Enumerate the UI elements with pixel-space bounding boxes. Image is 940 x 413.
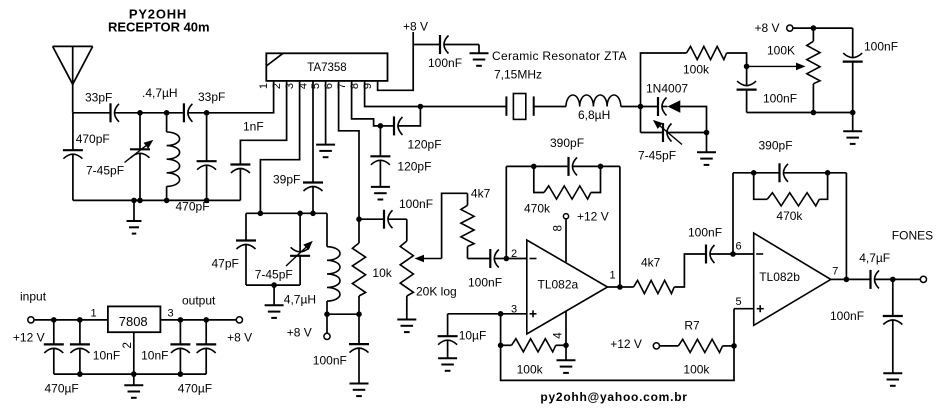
svg-text:470k: 470k <box>524 202 551 216</box>
wire <box>727 53 747 66</box>
pin 5 label U1 <box>310 83 322 89</box>
resistor R7 100k <box>678 339 722 352</box>
wire <box>73 112 111 114</box>
label 1N4007 <box>646 82 688 96</box>
wire pin9 <box>378 45 414 91</box>
svg-text:100nF: 100nF <box>313 354 347 368</box>
label +8 V <box>403 20 428 34</box>
wire <box>115 112 141 114</box>
terminal +8V <box>324 333 330 339</box>
wire pin3 <box>260 81 299 213</box>
resistor R1 100k <box>687 46 727 59</box>
wire <box>893 278 921 280</box>
label +12 V <box>610 337 642 351</box>
capacitor C18 390pF <box>780 163 789 182</box>
capacitor C14 100nF <box>384 210 393 229</box>
svg-text:120pF: 120pF <box>397 160 431 174</box>
junction <box>324 311 330 317</box>
svg-text:100k: 100k <box>517 363 544 377</box>
label 100nF <box>864 40 898 54</box>
wire <box>73 199 241 201</box>
inductor L1 4,7uH <box>167 113 180 201</box>
label 4k7 <box>471 187 491 201</box>
svg-text:390pF: 390pF <box>759 139 793 153</box>
wire <box>556 344 566 346</box>
junction <box>730 251 736 257</box>
capacitor C11 100nF <box>737 66 757 112</box>
terminal FONES <box>920 276 926 282</box>
junction <box>51 317 57 323</box>
pin 7 label <box>832 266 838 278</box>
svg-text:7-45pF: 7-45pF <box>638 149 676 163</box>
label 4,7uH <box>142 86 178 100</box>
svg-text:100K: 100K <box>767 44 795 58</box>
svg-text:TA7358: TA7358 <box>307 62 346 74</box>
label 10k <box>372 266 392 280</box>
wire pin2 <box>133 332 135 374</box>
pin 1 label U1 <box>258 83 270 89</box>
label 10nF <box>141 349 168 363</box>
wire <box>534 106 566 108</box>
svg-text:4,7µH: 4,7µH <box>284 293 316 307</box>
label +12 V <box>577 210 609 224</box>
svg-text:Ceramic Resonator ZTA: Ceramic Resonator ZTA <box>492 49 627 63</box>
label 470uF <box>178 382 212 396</box>
wire <box>327 313 359 315</box>
inductor L3 4,7uH <box>327 213 340 314</box>
junction <box>204 110 210 116</box>
junction <box>203 317 209 323</box>
svg-text:5: 5 <box>310 83 322 89</box>
svg-text:10k: 10k <box>372 266 392 280</box>
wire pin5 <box>325 81 327 145</box>
pin 9 label U1 <box>362 83 374 89</box>
ground <box>316 145 335 158</box>
wire <box>793 27 853 29</box>
ground <box>883 373 902 386</box>
svg-text:470pF: 470pF <box>76 132 110 146</box>
junction <box>178 317 184 323</box>
wire <box>34 319 108 321</box>
wire <box>380 125 394 127</box>
label 7-45pF <box>86 164 124 178</box>
junction <box>744 64 750 70</box>
junction <box>825 170 831 176</box>
ground <box>124 374 143 398</box>
capacitor C4 470pF <box>197 113 217 201</box>
wire <box>506 165 568 167</box>
svg-text:1nF: 1nF <box>243 120 264 134</box>
wire <box>246 284 300 286</box>
ground <box>470 45 489 66</box>
label +12 V <box>13 331 45 345</box>
wire <box>831 278 847 280</box>
capacitor C12 100nF <box>843 28 863 112</box>
capacitor C7 120pF <box>394 116 403 135</box>
label 100nF <box>830 309 864 323</box>
svg-text:1: 1 <box>90 308 96 320</box>
svg-text:2: 2 <box>122 342 134 348</box>
pin 3 label U1 <box>284 83 296 89</box>
pin 5 label <box>735 296 741 308</box>
wire <box>188 81 274 113</box>
svg-text:8: 8 <box>553 225 565 231</box>
junction <box>498 311 504 317</box>
svg-text:+8 V: +8 V <box>227 331 252 345</box>
junction <box>811 110 817 116</box>
junction <box>271 282 277 288</box>
label 470pF <box>76 132 110 146</box>
wire pin7 <box>352 81 381 126</box>
title RECEPTOR 40m <box>108 20 210 35</box>
junction <box>310 211 316 217</box>
pin 8 label U1 <box>349 83 361 89</box>
wire <box>501 344 512 346</box>
terminal +8V <box>787 25 793 31</box>
svg-text:3: 3 <box>167 308 173 320</box>
junction <box>617 284 623 290</box>
junction <box>418 104 424 110</box>
wire pin3 <box>448 313 527 315</box>
svg-text:+8 V: +8 V <box>287 326 312 340</box>
pin 6 label U1 <box>323 83 335 89</box>
capacitor C6 39pF <box>303 183 323 214</box>
pin 2 label <box>511 248 517 260</box>
label 33pF <box>85 91 112 105</box>
wire <box>660 345 679 347</box>
label 1nF <box>243 120 264 134</box>
resistor R8 470k <box>767 193 819 206</box>
junction <box>504 256 510 262</box>
trimmer capacitor CT3 7-45pF <box>641 107 707 145</box>
wire <box>641 106 659 108</box>
wire <box>505 166 507 258</box>
svg-text:470µF: 470µF <box>45 382 79 396</box>
capacitor C13 390pF <box>569 157 578 176</box>
svg-text:2: 2 <box>511 248 517 260</box>
ground <box>557 345 576 373</box>
label FONES <box>892 229 933 243</box>
wire <box>500 314 502 346</box>
label 470pF <box>176 200 210 214</box>
label 100nF <box>688 226 722 240</box>
label 7-45pF <box>255 268 293 282</box>
wire <box>875 278 893 280</box>
junction <box>563 343 569 349</box>
terminal input <box>28 317 34 323</box>
wire <box>732 173 734 254</box>
svg-text:100k: 100k <box>683 63 710 77</box>
junction <box>131 198 137 204</box>
ground <box>265 285 284 318</box>
op-amp U2a TL082 <box>527 240 608 334</box>
wire <box>591 166 601 192</box>
wire pin5 <box>734 309 754 346</box>
svg-text:120pF: 120pF <box>408 138 442 152</box>
antenna <box>53 46 93 112</box>
wire <box>444 44 479 46</box>
label 470uF <box>45 382 79 396</box>
svg-text:+8 V: +8 V <box>403 20 428 34</box>
wire <box>413 44 440 46</box>
label 120pF <box>408 138 442 152</box>
ground <box>127 200 142 233</box>
label Ceramic Resonator ZTA <box>492 49 627 63</box>
wire <box>608 286 620 288</box>
capacitor C24 10nF <box>70 320 90 374</box>
svg-text:7: 7 <box>832 266 838 278</box>
junction <box>498 343 504 349</box>
ground <box>843 113 862 144</box>
label 6,8uH <box>578 108 610 122</box>
capacitor C22 100nF <box>349 314 369 383</box>
svg-text:4k7: 4k7 <box>471 187 491 201</box>
junction <box>531 164 537 170</box>
junction <box>598 164 604 170</box>
label 4,7uH <box>284 293 316 307</box>
wire pin4 <box>312 81 314 183</box>
wire <box>620 286 634 288</box>
junction <box>704 130 710 136</box>
svg-text:input: input <box>20 290 47 304</box>
label 7-45pF <box>638 149 676 163</box>
svg-text:py2ohh@yahoo.com.br: py2ohh@yahoo.com.br <box>540 390 687 404</box>
wire <box>167 112 184 114</box>
svg-text:4,7µF: 4,7µF <box>859 251 890 265</box>
wire pin2 <box>240 81 286 165</box>
svg-text:TL082b: TL082b <box>759 270 800 284</box>
svg-text:output: output <box>182 294 216 308</box>
junction <box>164 198 170 204</box>
label 120pF <box>397 160 431 174</box>
wire pin6 <box>339 81 359 219</box>
svg-text:7808: 7808 <box>119 314 148 329</box>
junction <box>378 123 384 129</box>
pin 3 label <box>167 308 173 320</box>
wire <box>534 166 544 192</box>
resistor R3 10k <box>352 219 365 314</box>
wire <box>784 172 847 174</box>
junction <box>850 110 856 116</box>
junction <box>258 211 264 217</box>
svg-text:7-45pF: 7-45pF <box>255 268 293 282</box>
wire <box>733 253 754 255</box>
label 100nF <box>428 56 462 70</box>
wire pin4 <box>565 311 567 346</box>
capacitor C9 100nF <box>440 35 449 54</box>
capacitor C23 470uF <box>44 320 64 374</box>
wire <box>819 173 827 200</box>
svg-text:470µF: 470µF <box>178 382 212 396</box>
wire <box>845 173 847 280</box>
wire <box>412 32 414 45</box>
junction <box>77 317 83 323</box>
label +8 V <box>287 326 312 340</box>
svg-text:.4,7µH: .4,7µH <box>142 86 178 100</box>
svg-text:10nF: 10nF <box>141 349 168 363</box>
terminal +12V <box>563 214 568 219</box>
capacitor C16 10uF <box>438 314 458 358</box>
svg-text:+12 V: +12 V <box>13 331 45 345</box>
capacitor C1 33pF <box>111 103 120 122</box>
svg-text:10nF: 10nF <box>93 349 120 363</box>
label input <box>20 290 47 304</box>
capacitor C20 100nF <box>883 279 903 373</box>
wire <box>621 106 641 108</box>
potentiometer VR2 20K log <box>400 219 441 319</box>
wire <box>468 258 491 260</box>
svg-text:39pF: 39pF <box>273 173 300 187</box>
pin 3 label <box>511 304 517 316</box>
ground <box>697 133 716 165</box>
pin 6 label <box>735 241 741 253</box>
capacitor C15 100nF <box>490 249 499 268</box>
pin 4 label <box>553 332 565 339</box>
IC U1 TA7358 <box>266 53 387 81</box>
ground <box>350 384 369 397</box>
wire <box>494 258 506 260</box>
wire <box>747 112 853 114</box>
wire <box>359 218 384 220</box>
wire <box>710 253 733 255</box>
capacitor C17 100nF <box>706 245 715 264</box>
label 100nF <box>399 197 433 211</box>
label 100nF <box>468 276 502 290</box>
svg-text:6,8µH: 6,8µH <box>578 108 610 122</box>
junction <box>356 216 362 222</box>
junction <box>137 198 143 204</box>
capacitor C5 1nF <box>230 165 250 201</box>
label 100k <box>683 63 710 77</box>
svg-text:100nF: 100nF <box>763 92 797 106</box>
junction <box>131 371 137 377</box>
label 4k7 <box>641 256 661 270</box>
svg-text:20K log: 20K log <box>416 285 457 299</box>
ground <box>438 358 457 371</box>
wire <box>246 212 327 214</box>
svg-text:390pF: 390pF <box>550 136 584 150</box>
ground <box>397 320 416 333</box>
svg-text:4: 4 <box>553 332 565 339</box>
label 390pF <box>759 139 793 153</box>
capacitor C8 120pF <box>370 126 390 187</box>
label 100K <box>767 44 795 58</box>
capacitor C25 10nF <box>170 320 190 374</box>
svg-text:1: 1 <box>258 83 270 89</box>
resistor R2 470k <box>544 186 591 199</box>
wire <box>506 258 527 260</box>
junction <box>297 211 303 217</box>
junction <box>731 343 737 349</box>
label 10uF <box>459 329 487 343</box>
capacitor C19 4,7uF <box>871 270 880 289</box>
title PY2OHH <box>129 7 187 22</box>
pin 1 label <box>90 308 96 320</box>
wire link to pin5 node <box>501 345 734 380</box>
label 390pF <box>550 136 584 150</box>
junction <box>137 110 143 116</box>
label +8 V <box>227 331 252 345</box>
trimmer capacitor CT2 7-45pF <box>286 213 313 285</box>
junction <box>356 311 362 317</box>
svg-text:2: 2 <box>271 83 283 89</box>
label +8 V <box>755 21 780 35</box>
wire <box>398 107 420 126</box>
ground <box>371 187 390 200</box>
pin 8 label <box>553 225 565 231</box>
resistor R4 4k7 <box>461 193 474 258</box>
wire <box>723 345 735 347</box>
capacitor C26 470uF <box>196 320 216 374</box>
wire +8V stem <box>326 314 328 333</box>
label 100k <box>683 363 710 377</box>
label output <box>182 294 216 308</box>
pin 7 label U1 <box>336 83 348 89</box>
label 10nF <box>93 349 120 363</box>
label R7 <box>684 319 700 333</box>
wire <box>674 254 706 287</box>
junction <box>890 277 896 283</box>
wire <box>754 173 768 200</box>
wire <box>733 172 780 174</box>
junction <box>178 371 184 377</box>
label 470k <box>776 209 803 223</box>
svg-text:1: 1 <box>610 270 616 282</box>
svg-text:+12 V: +12 V <box>577 210 609 224</box>
capacitor C3 470pF <box>63 113 83 201</box>
svg-text:100nF: 100nF <box>830 309 864 323</box>
terminal +12V <box>653 343 659 349</box>
label 100k <box>517 363 544 377</box>
label 20K log <box>416 285 457 299</box>
label 33pF <box>198 90 225 104</box>
label 100nF <box>763 92 797 106</box>
capacitor C21 47pF <box>236 213 256 285</box>
svg-text:47pF: 47pF <box>212 257 239 271</box>
wire <box>619 166 621 287</box>
junction <box>844 277 850 283</box>
wire pin8 <box>365 81 506 107</box>
wire <box>680 107 706 133</box>
svg-text:33pF: 33pF <box>198 90 225 104</box>
wire <box>54 373 206 375</box>
svg-text:33pF: 33pF <box>85 91 112 105</box>
svg-text:100nF: 100nF <box>864 40 898 54</box>
label 470k <box>524 202 551 216</box>
junction <box>751 170 757 176</box>
wire pin8 <box>565 219 567 262</box>
junction <box>164 110 170 116</box>
resistor R5 100k <box>512 339 556 352</box>
pin 2 label <box>122 342 134 348</box>
capacitor C10 coupling <box>658 97 667 116</box>
inductor L2 6,8uH <box>566 95 621 107</box>
svg-text:FONES: FONES <box>892 229 933 243</box>
wire <box>442 193 468 258</box>
pin 4 label U1 <box>298 83 310 89</box>
svg-text:470k: 470k <box>776 209 803 223</box>
junction <box>77 371 83 377</box>
wire <box>388 218 407 220</box>
wire <box>160 319 236 321</box>
wire <box>573 165 620 167</box>
svg-text:R7: R7 <box>684 319 700 333</box>
junction <box>638 104 644 110</box>
junction <box>811 25 817 31</box>
svg-text:5: 5 <box>735 296 741 308</box>
svg-text:7-45pF: 7-45pF <box>86 164 124 178</box>
label email <box>540 390 687 404</box>
